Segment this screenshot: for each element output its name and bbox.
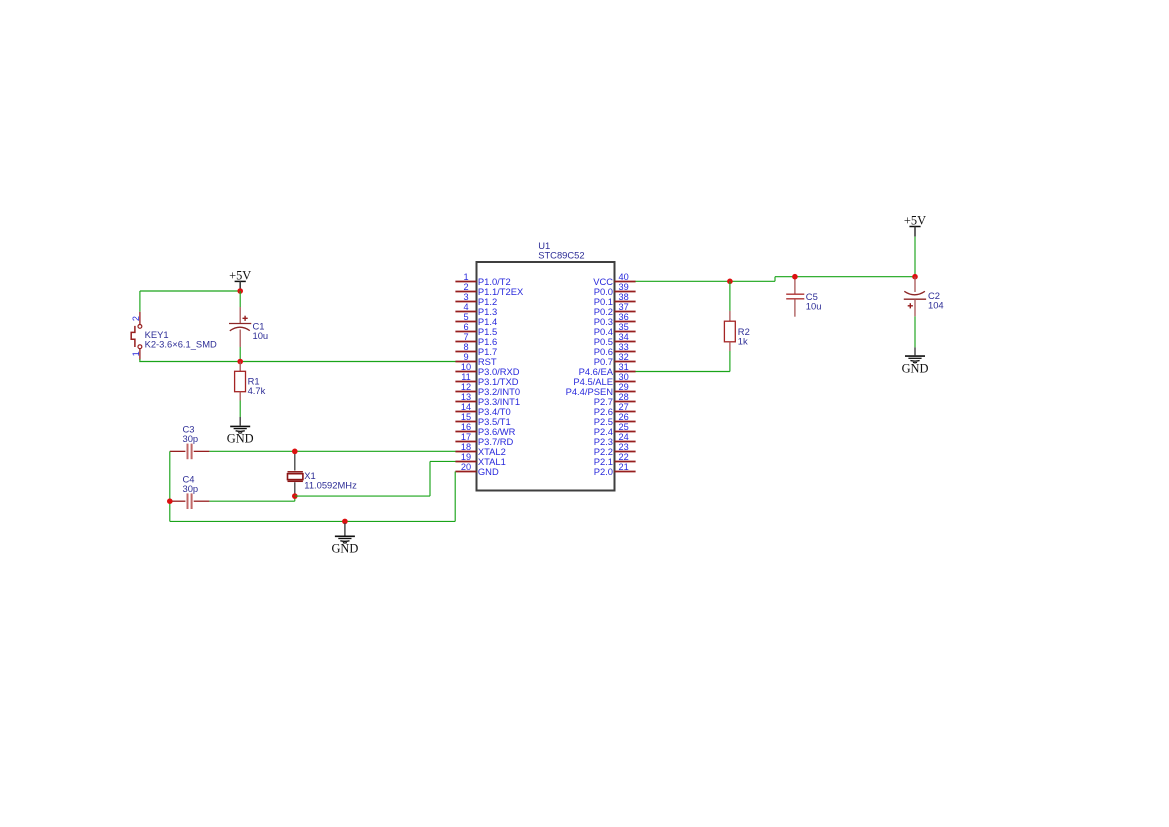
svg-text:4: 4 <box>463 302 468 312</box>
node junction C5 top <box>792 274 798 280</box>
svg-text:1: 1 <box>463 272 468 282</box>
pin 2 P1.1/T2EX (left) <box>455 282 524 297</box>
node junction C4 left <box>167 498 173 504</box>
node junction +5V/C2/rail <box>912 274 918 280</box>
pin 21 P2.0 (right) <box>594 462 636 477</box>
ground bottom rail <box>331 523 358 556</box>
pin 18 XTAL2 (left) <box>455 442 505 457</box>
pin 20 GND (left) <box>455 462 499 477</box>
pin 25 P2.4 (right) <box>594 422 636 437</box>
pin 17 P3.7/RD (left) <box>455 432 513 447</box>
svg-text:15: 15 <box>461 412 471 422</box>
pin 35 P0.4 (right) <box>594 322 636 337</box>
pin 39 P0.0 (right) <box>594 282 636 297</box>
pin 1 P1.0/T2 (left) <box>455 272 510 287</box>
svg-text:35: 35 <box>618 322 628 332</box>
pin 7 P1.6 (left) <box>455 332 497 347</box>
svg-text:25: 25 <box>618 422 628 432</box>
node junction X1 bottom / C4 wire <box>292 493 298 499</box>
pin 28 P2.7 (right) <box>594 392 636 407</box>
svg-text:30: 30 <box>618 372 628 382</box>
svg-text:24: 24 <box>618 432 628 442</box>
svg-text:1: 1 <box>131 351 141 356</box>
node junction RST/C1/R1 <box>237 359 243 365</box>
power +5V (right) <box>904 214 926 237</box>
pin 8 P1.7 (left) <box>455 342 497 357</box>
svg-text:GND: GND <box>331 542 358 556</box>
capacitor C1 10u electrolytic <box>229 291 268 362</box>
svg-text:31: 31 <box>618 362 628 372</box>
svg-text:13: 13 <box>461 392 471 402</box>
svg-text:1k: 1k <box>738 335 748 346</box>
wire +5V to KEY1 top horizontal <box>140 290 240 292</box>
pin 19 XTAL1 (left) <box>455 452 505 467</box>
pin 15 P3.5/T1 (left) <box>455 412 510 427</box>
svg-text:27: 27 <box>618 402 628 412</box>
svg-text:30p: 30p <box>183 483 199 494</box>
svg-text:17: 17 <box>461 432 471 442</box>
pin 38 P0.1 (right) <box>594 292 636 307</box>
svg-text:+5V: +5V <box>229 268 251 282</box>
ground below R1 <box>227 417 254 446</box>
svg-text:11.0592MHz: 11.0592MHz <box>304 480 357 491</box>
svg-text:5: 5 <box>463 312 468 322</box>
node junction +5V/C1/KEY1 <box>237 288 243 294</box>
ground below C2 <box>902 347 929 375</box>
wire C4 to X1 bottom <box>209 496 294 501</box>
wire KEY1 pin1 to RST (pin 9) <box>139 359 455 362</box>
crystal X1 11.0592MHz <box>288 451 358 496</box>
pin 30 P4.5/ALE (right) <box>573 372 635 387</box>
wire +5V right down to rail <box>914 237 916 277</box>
svg-text:6: 6 <box>463 322 468 332</box>
power +5V (left) <box>229 268 251 291</box>
pin 23 P2.2 (right) <box>594 442 636 457</box>
wire C3 to XTAL2 (pin 18) <box>209 450 455 452</box>
svg-text:30p: 30p <box>183 433 199 444</box>
svg-text:20: 20 <box>461 462 471 472</box>
pin 5 P1.4 (left) <box>455 312 497 327</box>
pin 33 P0.6 (right) <box>594 342 636 357</box>
pin 16 P3.6/WR (left) <box>455 422 515 437</box>
svg-text:22: 22 <box>618 452 628 462</box>
pin 22 P2.1 (right) <box>594 452 636 467</box>
svg-text:P2.0: P2.0 <box>594 466 613 477</box>
IC U1 STC89C52 <box>477 240 615 490</box>
svg-text:32: 32 <box>618 352 628 362</box>
wire R1 to GND <box>239 401 241 418</box>
svg-text:2: 2 <box>463 282 468 292</box>
node junction VCC/R2 <box>727 279 733 285</box>
svg-text:21: 21 <box>618 462 628 472</box>
svg-text:8: 8 <box>463 342 468 352</box>
pin 3 P1.2 (left) <box>455 292 497 307</box>
resistor R2 1k <box>724 281 749 351</box>
pin 40 VCC (right) <box>593 272 635 287</box>
capacitor C2 104 <box>904 277 944 317</box>
pin 4 P1.3 (left) <box>455 302 497 317</box>
pin 14 P3.4/T0 (left) <box>455 402 510 417</box>
pin 32 P0.7 (right) <box>594 352 636 367</box>
transistor KEY1 push button K2-3.6x6.1_SMD <box>131 312 217 360</box>
node junction bottom rail / GND symbol <box>342 519 348 525</box>
wire KEY1 top vertical <box>139 291 141 312</box>
svg-text:37: 37 <box>618 302 628 312</box>
pin 11 P3.1/TXD (left) <box>455 372 518 387</box>
svg-text:12: 12 <box>461 382 471 392</box>
wire GND (pin 20) down <box>454 472 456 522</box>
svg-text:38: 38 <box>618 292 628 302</box>
wire X1 bottom to XTAL1 (pin 19) <box>295 461 456 496</box>
svg-text:STC89C52: STC89C52 <box>538 249 584 260</box>
svg-text:39: 39 <box>618 282 628 292</box>
svg-text:GND: GND <box>227 432 254 446</box>
svg-text:7: 7 <box>463 332 468 342</box>
wire bottom ground rail <box>170 520 455 522</box>
pin 37 P0.2 (right) <box>594 302 636 317</box>
pin 6 P1.5 (left) <box>455 322 497 337</box>
svg-text:18: 18 <box>461 442 471 452</box>
svg-text:33: 33 <box>618 342 628 352</box>
pin 9 RST (left) <box>455 352 497 367</box>
pin 31 P4.6/EA (right) <box>579 362 636 377</box>
pin 29 P4.4/PSEN (right) <box>566 382 636 397</box>
pin 34 P0.5 (right) <box>594 332 636 347</box>
wire C3/C4 left vertical <box>169 451 171 521</box>
svg-text:+5V: +5V <box>904 214 926 228</box>
svg-text:GND: GND <box>478 466 499 477</box>
node junction X1 top / C3 wire <box>292 449 298 455</box>
svg-text:14: 14 <box>461 402 471 412</box>
svg-text:10u: 10u <box>806 301 822 312</box>
pin 26 P2.5 (right) <box>594 412 636 427</box>
svg-text:36: 36 <box>618 312 628 322</box>
pin 13 P3.3/INT1 (left) <box>455 392 520 407</box>
svg-text:4.7k: 4.7k <box>248 385 266 396</box>
svg-text:40: 40 <box>618 272 628 282</box>
svg-text:10: 10 <box>461 362 471 372</box>
capacitor C4 30p <box>170 474 210 509</box>
pin 36 P0.3 (right) <box>594 312 636 327</box>
svg-text:3: 3 <box>463 292 468 302</box>
svg-text:9: 9 <box>463 352 468 362</box>
svg-text:10u: 10u <box>253 330 269 341</box>
svg-text:23: 23 <box>618 442 628 452</box>
svg-text:34: 34 <box>618 332 628 342</box>
resistor R1 4.7k <box>235 362 266 401</box>
pin 12 P3.2/INT0 (left) <box>455 382 520 397</box>
capacitor C5 10u <box>786 277 821 317</box>
svg-text:26: 26 <box>618 412 628 422</box>
svg-text:2: 2 <box>131 316 141 321</box>
svg-text:19: 19 <box>461 452 471 462</box>
pin 27 P2.6 (right) <box>594 402 636 417</box>
svg-text:K2-3.6×6.1_SMD: K2-3.6×6.1_SMD <box>145 339 217 350</box>
svg-text:GND: GND <box>902 361 929 375</box>
capacitor C3 30p <box>170 424 210 460</box>
svg-text:11: 11 <box>461 372 471 382</box>
wire VCC (pin 40) to +5V rail <box>636 277 915 282</box>
wire C2 to GND <box>914 316 916 347</box>
pin 24 P2.3 (right) <box>594 432 636 447</box>
wire R2 to P4.6/EA (pin 31) <box>636 351 730 372</box>
svg-text:28: 28 <box>618 392 628 402</box>
svg-text:104: 104 <box>928 299 944 310</box>
pin 10 P3.0/RXD (left) <box>455 362 519 377</box>
svg-text:16: 16 <box>461 422 471 432</box>
svg-text:29: 29 <box>618 382 628 392</box>
